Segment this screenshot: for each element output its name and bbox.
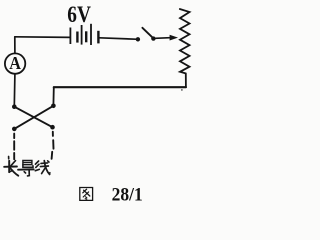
wire battery to switch	[99, 38, 135, 39]
switch S	[136, 28, 156, 42]
svg-text:A: A	[9, 53, 21, 73]
char 导	[18, 161, 34, 176]
label 长导线 (long wire), drawn strokes	[4, 157, 50, 176]
char 长	[4, 157, 18, 176]
ink speck under bottom wire	[181, 89, 183, 91]
rheostat R (zigzag)	[180, 9, 190, 73]
dashed long lead left	[13, 134, 15, 160]
wire down to crossover right terminal	[52, 87, 54, 106]
dashed long lead right	[52, 132, 54, 159]
wire top-left vertical down to ammeter	[14, 37, 16, 54]
wire bottom horizontal	[54, 86, 186, 88]
ammeter A	[5, 53, 25, 74]
rheostat slider arrowhead	[170, 35, 178, 41]
wire top-left horizontal	[15, 36, 70, 39]
battery B (3 cells)	[70, 24, 98, 45]
wire switch to slider arrow	[155, 37, 170, 40]
svg-text:6V: 6V	[67, 1, 91, 27]
char 线	[35, 161, 50, 175]
caption 图 (figure), drawn strokes	[80, 188, 93, 201]
wire rheostat bottom down	[185, 73, 187, 87]
crossover X of leads	[12, 104, 56, 132]
wire ammeter bottom down to crossover	[13, 74, 16, 106]
svg-text:28/1: 28/1	[112, 184, 143, 205]
